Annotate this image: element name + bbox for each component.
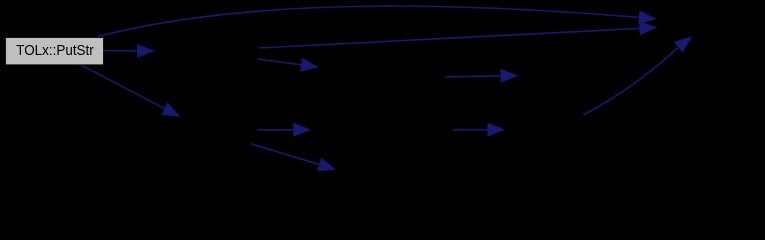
edge E5: mid-row horizontal arrow: [446, 70, 517, 83]
edge E1: TOLx::PutStr to top-right node (curve): [98, 6, 655, 36]
edge E10: node 2 to bottom node (diagonal): [251, 144, 335, 171]
edge E7: lower-row horizontal arrow left: [257, 124, 310, 137]
node TOLx::PutStr (grey box): [6, 38, 103, 65]
svg-text:TOLx::PutStr: TOLx::PutStr: [16, 42, 94, 59]
edge E8: lower-row horizontal arrow right: [453, 123, 504, 136]
edge E2: TOLx::PutStr to node 2 (short horizontal arrow): [103, 45, 153, 58]
edge E9: lower-right node up to right node (curve): [583, 37, 691, 115]
edge E3: node 2 to top-right node (long rising line): [259, 22, 657, 48]
edge E4: node 2 to node 3 (short down-right arrow): [258, 59, 317, 72]
edge E6: TOLx::PutStr to lower node (diagonal): [82, 65, 179, 116]
